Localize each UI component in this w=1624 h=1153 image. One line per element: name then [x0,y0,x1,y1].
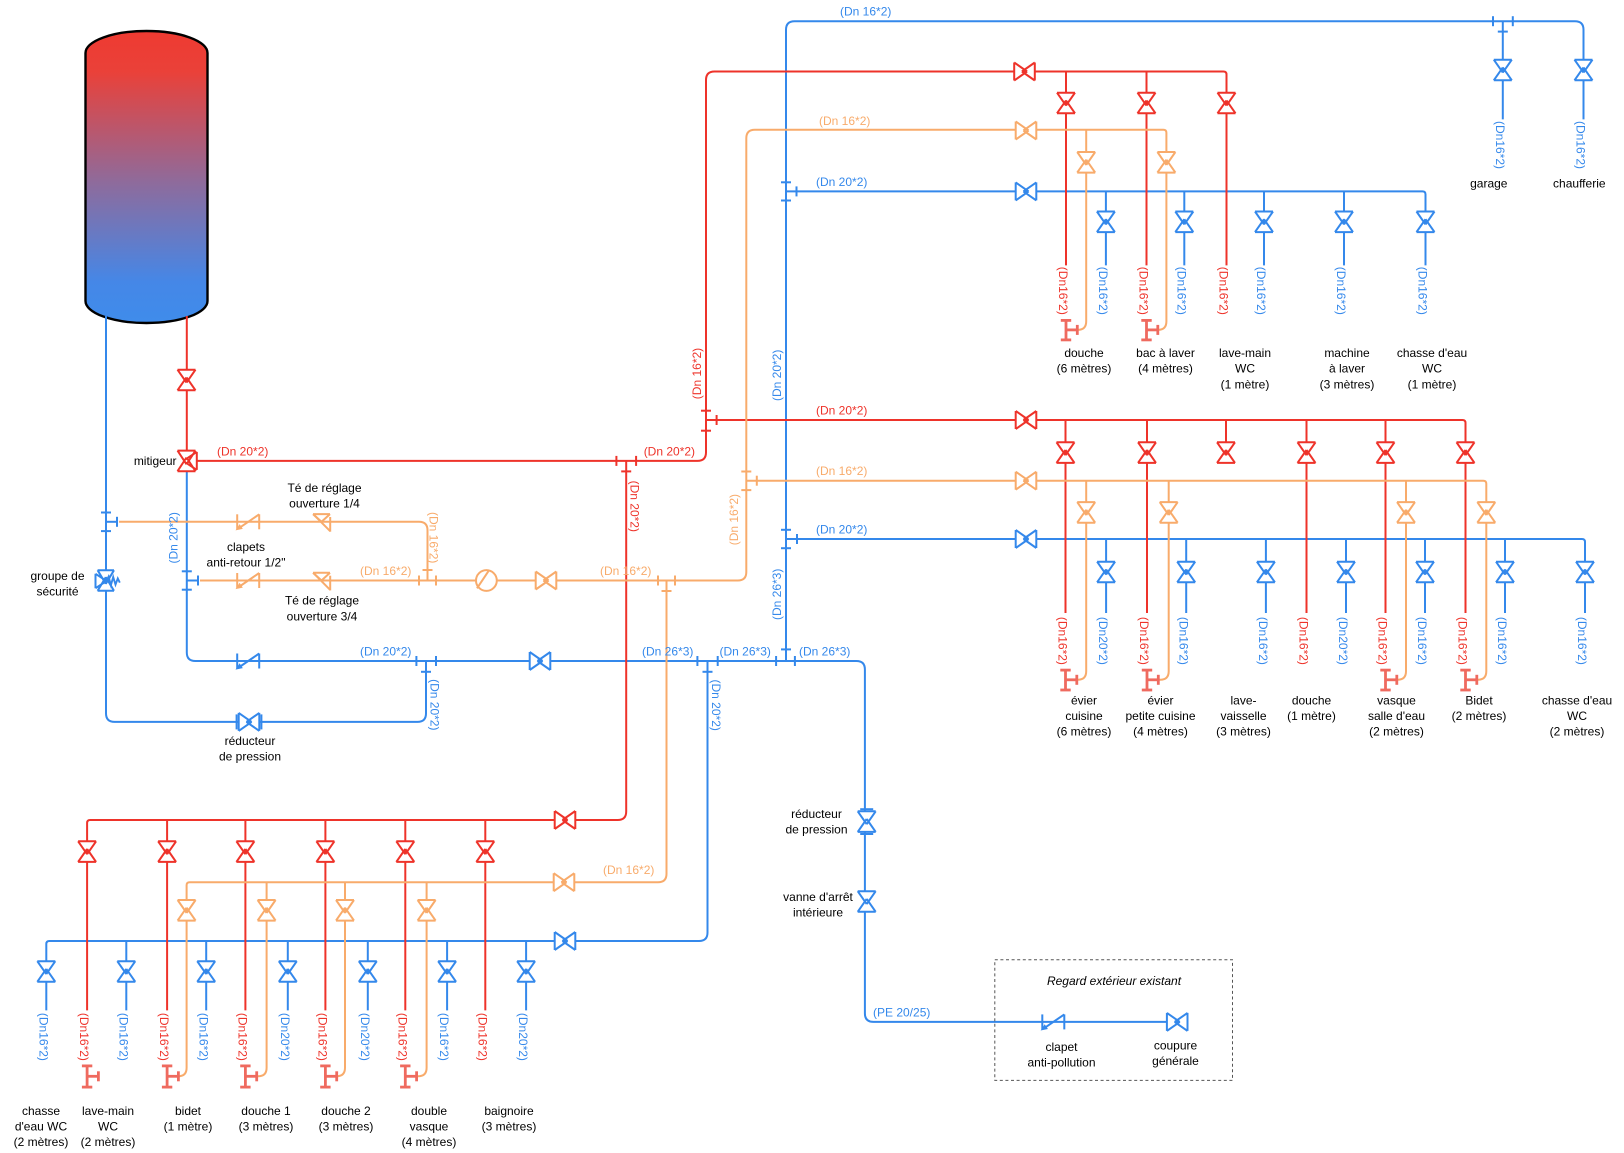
valve blue main line [530,652,551,670]
mitigeur 3-way valve [178,451,197,472]
svg-text:(2 mètres): (2 mètres) [1550,725,1605,739]
svg-text:(1 mètre): (1 mètre) [1408,377,1457,391]
svg-text:baignoire: baignoire [484,1104,534,1118]
svg-text:(Dn16*2): (Dn16*2) [1574,121,1588,169]
valve orange drop group2 x=1168.7 [1160,502,1178,523]
svg-text:(Dn 16*2): (Dn 16*2) [603,863,654,877]
svg-text:(Dn 20*2): (Dn 20*2) [816,523,867,537]
fixture tee bottom-left x=245.4 [240,1066,257,1087]
valve blue drop group2 x=1585 [1576,562,1594,583]
valve blue drop bottom-left x=287.8 [279,961,297,982]
svg-text:(Dn 26*3): (Dn 26*3) [770,569,784,620]
valve red drop group2 x=1385.5 [1377,442,1395,463]
valve blue drop bottom-left x=526.1 [517,961,535,982]
reducteur de pression left [239,713,260,731]
valve blue drop group2 x=1346 [1337,562,1355,583]
clapet anti-retour line 2 [236,573,238,588]
svg-text:(Dn16*2): (Dn16*2) [1176,617,1190,665]
valve blue drop bottom-left x=46.3 [37,961,55,982]
svg-text:évier: évier [1071,693,1097,707]
valve group1 red line [1014,63,1035,81]
svg-text:ouverture 1/4: ouverture 1/4 [289,497,360,511]
svg-text:(Dn16*2): (Dn16*2) [1297,617,1311,665]
svg-text:(Dn16*2): (Dn16*2) [196,1013,210,1061]
svg-text:(Dn 20*2): (Dn 20*2) [709,680,723,731]
svg-text:(4 mètres): (4 mètres) [1138,362,1193,376]
svg-text:(1 mètre): (1 mètre) [1287,709,1336,723]
wire red drop group1 douche [1065,72,1067,266]
svg-text:ouverture 3/4: ouverture 3/4 [287,609,358,623]
wire blue drop bottom-left x=447.1 [446,941,448,1010]
svg-text:(2 mètres): (2 mètres) [14,1135,69,1149]
valve red drop group2 x=1226 [1217,442,1235,463]
svg-text:générale: générale [1152,1054,1199,1068]
wire hot water line group 2 with end drop [706,420,1466,613]
wire red drop bottom-left x=405.3 [404,820,406,1010]
valve blue drop group1 x=1105.9 [1097,212,1115,233]
node cold riser tee line2 [182,570,192,572]
svg-text:(Dn16*2): (Dn16*2) [1137,267,1151,315]
wire tempered riser down and bottom-left line with end drop to bidet [178,581,666,1077]
wire blue stub to tempering line 1 [106,521,117,523]
wire hot water riser down and bottom-left line with end drop [87,461,626,1010]
valve group1 blue line [1016,182,1037,200]
wire garage drop [1502,21,1504,119]
valve red drop group1 x=1066 [1057,93,1075,114]
wire blue drop group1 x=1184.3 [1183,191,1185,265]
wire blue drop bottom-left x=526.1 [525,941,527,1010]
svg-text:(Dn 26*3): (Dn 26*3) [799,645,850,659]
wire blue drop group2 x=1106.1 [1105,539,1107,613]
valve blue drop group2 x=1186.2 [1177,562,1195,583]
wire orange drop group1 douche [1077,130,1086,330]
svg-text:(Dn 26*3): (Dn 26*3) [642,645,693,659]
svg-text:(Dn 20*2): (Dn 20*2) [816,175,867,189]
svg-text:chasse: chasse [22,1104,60,1118]
svg-text:à laver: à laver [1329,362,1365,376]
svg-text:lave-: lave- [1230,693,1256,707]
valve group2 blue line [1016,530,1037,548]
svg-text:de pression: de pression [219,750,281,764]
valve orange drop bottom-left x=345 [336,900,354,921]
svg-text:douche 1: douche 1 [241,1104,291,1118]
svg-text:bidet: bidet [175,1104,202,1118]
svg-text:sécurité: sécurité [36,585,78,599]
svg-text:(Dn 20*2): (Dn 20*2) [167,512,181,563]
wire red drop group1 bac a laver [1146,72,1148,266]
svg-text:(Dn16*2): (Dn16*2) [395,1013,409,1061]
svg-text:(Dn16*2): (Dn16*2) [1137,617,1151,665]
valve blue drop group2 x=1106.1 [1097,562,1115,583]
svg-text:(Dn16*2): (Dn16*2) [1416,267,1430,315]
fixture tee group2 x=1385.5 [1380,670,1397,690]
valve garage [1494,60,1512,81]
wire blue drop group2 x=1505 [1504,539,1506,613]
svg-text:WC: WC [98,1120,118,1134]
svg-text:(Dn16*2): (Dn16*2) [1056,617,1070,665]
fixture tee bottom-left x=325.4 [320,1066,337,1087]
wire blue drop group2 x=1425 [1424,539,1426,613]
valve red drop bottom-left x=405.3 [396,841,414,862]
valve red drop bottom-left x=325.4 [316,841,334,862]
valve blue drop group1 x=1184.3 [1175,212,1193,233]
valve red drop bottom-left x=87.1 [78,841,96,862]
svg-text:vasque: vasque [1377,693,1416,707]
fixture tee bottom-left x=87.1 [82,1066,99,1087]
wire cold water: mitigeur down, main distribution line, to exterior PE line [187,471,1189,1022]
valve blue drop bottom-left x=126.3 [117,961,135,982]
te de reglage ouverture 3/4 symbol [313,573,330,581]
valve bottom-left orange line [554,873,575,891]
svg-text:(Dn20*2): (Dn20*2) [358,1013,372,1061]
svg-text:(Dn16*2): (Dn16*2) [1334,267,1348,315]
wire tempered line 1 (ouverture 1/4) joining line 2 [119,522,428,581]
svg-text:(Dn16*2): (Dn16*2) [437,1013,451,1061]
svg-text:(1 mètre): (1 mètre) [164,1120,213,1134]
wire cold water line group 1 [786,191,1426,265]
valve blue drop group2 x=1505 [1496,562,1514,583]
wire cold water: tank down through groupe de securite, pressure-reducer loop, up to main line [106,316,426,722]
wire cold water line group 2 [786,539,1585,613]
svg-text:(Dn16*2): (Dn16*2) [1217,267,1231,315]
wire red drop bottom-left x=167.1 [166,820,168,1010]
svg-text:WC: WC [1235,362,1255,376]
svg-text:lave-main: lave-main [1219,346,1271,360]
svg-text:(Dn16*2): (Dn16*2) [1096,267,1110,315]
clapet anti-pollution [1041,1014,1043,1029]
wire hot water: mitigeur line, riser, group 1 line with end drop [197,72,1227,461]
svg-text:de pression: de pression [785,823,847,837]
valve group2 orange line [1016,472,1037,490]
valve orange drop group2 x=1486.3 [1477,502,1495,523]
svg-text:(Dn20*2): (Dn20*2) [1336,617,1350,665]
wire blue drop group1 x=1264 [1263,191,1265,265]
wire orange drop group2 evier petite [1158,481,1168,680]
svg-text:(Dn16*2): (Dn16*2) [116,1013,130,1061]
svg-text:(3 mètres): (3 mètres) [239,1120,294,1134]
svg-text:(6 mètres): (6 mètres) [1057,725,1112,739]
svg-text:(Dn 16*2): (Dn 16*2) [840,5,891,19]
wire orange drop group2 vasque [1397,481,1406,680]
wire blue drop bottom-left x=206.2 [205,941,207,1010]
svg-text:(Dn 16*2): (Dn 16*2) [600,564,651,578]
svg-text:(Dn16*2): (Dn16*2) [1456,617,1470,665]
valve tempered pump line [536,572,557,590]
svg-text:vanne d'arrêt: vanne d'arrêt [783,890,853,904]
svg-text:bac à laver: bac à laver [1136,346,1195,360]
svg-text:salle d'eau: salle d'eau [1368,709,1425,723]
svg-text:(Dn20*2): (Dn20*2) [278,1013,292,1061]
valve orange drop group1 x=1166.4 [1157,152,1175,173]
svg-text:douche 2: douche 2 [321,1104,371,1118]
valve orange drop group2 x=1086.2 [1077,502,1095,523]
node tempered line tee x427 [418,576,420,586]
wire cold water riser to upper floors and roof line to garage/chaufferie [786,21,1584,661]
svg-text:(Dn 16*2): (Dn 16*2) [690,348,704,399]
svg-text:groupe de: groupe de [30,569,84,583]
svg-text:(Dn16*2): (Dn16*2) [316,1013,330,1061]
svg-text:(Dn16*2): (Dn16*2) [1174,267,1188,315]
svg-text:(3 mètres): (3 mètres) [319,1120,374,1134]
node blue main tee x426 [415,656,417,666]
svg-text:(Dn16*2): (Dn16*2) [36,1013,50,1061]
svg-text:(Dn 20*2): (Dn 20*2) [360,645,411,659]
svg-text:(2 mètres): (2 mètres) [1369,725,1424,739]
svg-text:(2 mètres): (2 mètres) [1452,709,1507,723]
node blue main tee x707 [696,656,698,666]
fixture tee group1 douche [1061,320,1078,340]
svg-text:(Dn 16*2): (Dn 16*2) [816,464,867,478]
svg-text:cuisine: cuisine [1065,709,1103,723]
wire red drop group2 douche [1306,420,1308,613]
te de reglage ouverture 1/4 symbol [313,514,330,522]
groupe de securite valve [96,570,115,591]
svg-text:vasque: vasque [410,1120,449,1134]
wire hot water from tank to mitigeur [186,316,188,451]
svg-text:réducteur: réducteur [791,807,842,821]
svg-text:double: double [411,1104,447,1118]
svg-text:(PE 20/25): (PE 20/25) [873,1005,930,1019]
node tempered line tee x666 [657,576,659,586]
svg-text:(Dn20*2): (Dn20*2) [516,1013,530,1061]
valve blue drop group1 x=1264 [1255,212,1273,233]
wire blue drop group1 x=1105.9 [1105,191,1107,265]
fixture tee group2 x=1465.5 [1460,670,1477,690]
node riser tee group1 blue [781,181,791,183]
fixture tee bottom-left x=405.3 [400,1066,417,1087]
valve coupure generale [1167,1013,1188,1031]
svg-text:(Dn16*2): (Dn16*2) [1495,617,1509,665]
valve bottom-left red line [555,811,576,829]
vanne d'arret interieure valve [858,891,876,912]
wire tempered line group 2 with end drop to Bidet [746,481,1486,680]
svg-text:(3 mètres): (3 mètres) [1320,377,1375,391]
node riser tee group2 orange [741,471,751,473]
svg-text:petite cuisine: petite cuisine [1125,709,1195,723]
svg-text:douche: douche [1292,693,1332,707]
svg-text:machine: machine [1324,346,1370,360]
svg-text:chasse d'eau: chasse d'eau [1397,346,1467,360]
valve orange drop bottom-left x=266.6 [258,900,276,921]
fixture tee group1 bac a laver [1141,320,1158,340]
valve group1 orange line [1016,122,1037,140]
wire red drop bottom-left x=245.4 [244,820,246,1010]
valve blue drop bottom-left x=447.1 [438,961,456,982]
wire blue drop bottom-left x=287.8 [287,941,289,1010]
svg-text:(Dn16*2): (Dn16*2) [1056,267,1070,315]
svg-text:(Dn16*2): (Dn16*2) [1376,617,1390,665]
svg-text:évier: évier [1147,693,1173,707]
svg-text:anti-pollution: anti-pollution [1027,1056,1095,1070]
svg-text:lave-main: lave-main [82,1104,134,1118]
wire blue drop group2 x=1346 [1345,539,1347,613]
valve blue drop bottom-left x=367.8 [359,961,377,982]
clapet anti-retour line 1 [236,514,238,529]
regard exterieur box [995,960,1233,1081]
wire orange drop bottom-left douche 1 [257,882,267,1076]
valve blue drop bottom-left x=206.2 [197,961,215,982]
svg-text:(3 mètres): (3 mètres) [1216,725,1271,739]
node mitigeur line tee [615,456,617,466]
wire red drop bottom-left x=485.3 [484,820,486,1010]
node main line tee at riser [775,656,777,666]
wire blue drop group2 x=1186.2 [1185,539,1187,613]
svg-text:(Dn16*2): (Dn16*2) [77,1013,91,1061]
svg-text:(Dn16*2): (Dn16*2) [1415,617,1429,665]
svg-text:clapets: clapets [227,540,265,554]
valve red drop bottom-left x=245.4 [236,841,254,862]
svg-text:chasse d'eau: chasse d'eau [1542,693,1612,707]
svg-text:clapet: clapet [1045,1040,1078,1054]
svg-text:anti-retour 1/2": anti-retour 1/2" [207,556,286,570]
svg-text:Bidet: Bidet [1465,693,1493,707]
valve bottom-left blue line [555,932,576,950]
valve orange drop group2 x=1406 [1397,502,1415,523]
valve blue drop group1 x=1344 [1335,212,1353,233]
svg-text:Regard extérieur existant: Regard extérieur existant [1047,974,1182,988]
wire red drop bottom-left x=325.4 [324,820,326,1010]
svg-text:(Dn16*2): (Dn16*2) [1256,617,1270,665]
valve orange drop group1 x=1086.2 [1077,152,1095,173]
svg-text:(Dn 16*2): (Dn 16*2) [819,114,870,128]
node riser tee group2 red [701,410,711,412]
wire red short stub group2 [1225,420,1227,463]
wire blue drop group2 x=1265.9 [1265,539,1267,613]
wire blue drop group1 x=1344 [1343,191,1345,265]
svg-text:(Dn 20*2): (Dn 20*2) [770,350,784,401]
wire orange drop bottom-left douche 2 [337,882,346,1076]
valve red drop bottom-left x=167.1 [158,841,176,862]
svg-text:Té de réglage: Té de réglage [287,481,361,495]
valve blue drop group2 x=1265.9 [1257,562,1275,583]
valve chaufferie [1575,60,1593,81]
valve orange drop bottom-left x=186.6 [178,900,196,921]
svg-text:(Dn16*2): (Dn16*2) [236,1013,250,1061]
wire orange drop group2 evier cuisine [1077,481,1086,680]
svg-text:(Dn 20*2): (Dn 20*2) [644,444,695,458]
node cold riser tee line1 [101,512,111,514]
svg-text:WC: WC [1567,709,1587,723]
valve red drop bottom-left x=485.3 [476,841,494,862]
svg-text:(2 mètres): (2 mètres) [81,1135,136,1149]
wire blue drop bottom-left x=126.3 [125,941,127,1010]
wire blue stub to tempering line 2 [187,580,198,582]
svg-text:(3 mètres): (3 mètres) [482,1120,537,1134]
fixture tee group2 x=1147 [1142,670,1159,690]
valve blue drop group2 x=1425 [1416,562,1434,583]
svg-text:(Dn16*2): (Dn16*2) [1254,267,1268,315]
fixture tee group2 x=1065.5 [1060,670,1077,690]
svg-text:vaisselle: vaisselle [1220,709,1266,723]
svg-text:intérieure: intérieure [793,906,843,920]
svg-text:chaufferie: chaufferie [1553,177,1606,191]
svg-text:(Dn 26*3): (Dn 26*3) [720,645,771,659]
svg-text:WC: WC [1422,362,1442,376]
svg-text:(Dn 20*2): (Dn 20*2) [217,444,268,458]
svg-text:(Dn 16*2): (Dn 16*2) [727,494,741,545]
svg-text:d'eau WC: d'eau WC [15,1120,68,1134]
svg-text:garage: garage [1470,177,1508,191]
svg-text:(4 mètres): (4 mètres) [402,1135,457,1149]
valve red drop group2 x=1306.5 [1298,442,1316,463]
svg-text:(Dn20*2): (Dn20*2) [1096,617,1110,665]
svg-text:(Dn16*2): (Dn16*2) [157,1013,171,1061]
wire red drop group2 evier petite cuisine [1146,420,1148,613]
circulation pump [476,570,497,591]
svg-text:coupure: coupure [1154,1038,1198,1052]
svg-text:(6 mètres): (6 mètres) [1057,362,1112,376]
svg-text:mitigeur: mitigeur [134,454,177,468]
svg-text:(Dn 20*2): (Dn 20*2) [816,404,867,418]
wire orange drop bottom-left double vasque [417,882,427,1076]
svg-text:douche: douche [1064,346,1104,360]
valve red drop group2 x=1465.5 [1457,442,1475,463]
svg-text:(Dn 20*2): (Dn 20*2) [628,481,642,532]
svg-text:(4 mètres): (4 mètres) [1133,725,1188,739]
svg-text:(Dn16*2): (Dn16*2) [1493,121,1507,169]
node garage tee [1492,16,1494,26]
svg-text:(Dn 16*2): (Dn 16*2) [427,512,441,563]
svg-text:(1 mètre): (1 mètre) [1221,377,1270,391]
fixture tee bottom-left x=167.1 [162,1066,179,1087]
wire red drop group2 vasque [1385,420,1387,613]
wire cold water line bottom-left group [46,661,707,1010]
wire red drop group2 evier cuisine [1065,420,1067,613]
valve red drop group1 x=1226.5 [1218,93,1236,114]
svg-text:réducteur: réducteur [225,734,276,748]
svg-text:(Dn16*2): (Dn16*2) [475,1013,489,1061]
valve tank outlet [178,370,196,391]
wire blue drop bottom-left x=367.8 [367,941,369,1010]
node riser tee group2 blue [781,529,791,531]
valve orange drop bottom-left x=426.6 [418,900,436,921]
svg-text:Té de réglage: Té de réglage [285,594,359,608]
reducteur de pression right [858,811,876,832]
svg-text:(Dn 16*2): (Dn 16*2) [360,564,411,578]
valve red drop group1 x=1146.5 [1138,93,1156,114]
svg-text:(Dn16*2): (Dn16*2) [1575,617,1589,665]
wire tempered line 2: pump line, riser, group 1 line, end drop to bac a laver [200,130,1166,581]
valve red drop group2 x=1147 [1138,442,1156,463]
valve red drop group2 x=1065.5 [1057,442,1075,463]
svg-text:(Dn 20*2): (Dn 20*2) [427,679,441,730]
valve group2 red line [1016,411,1037,429]
clapet blue main line [236,654,238,669]
valve blue drop group1 x=1425.5 [1417,212,1435,233]
